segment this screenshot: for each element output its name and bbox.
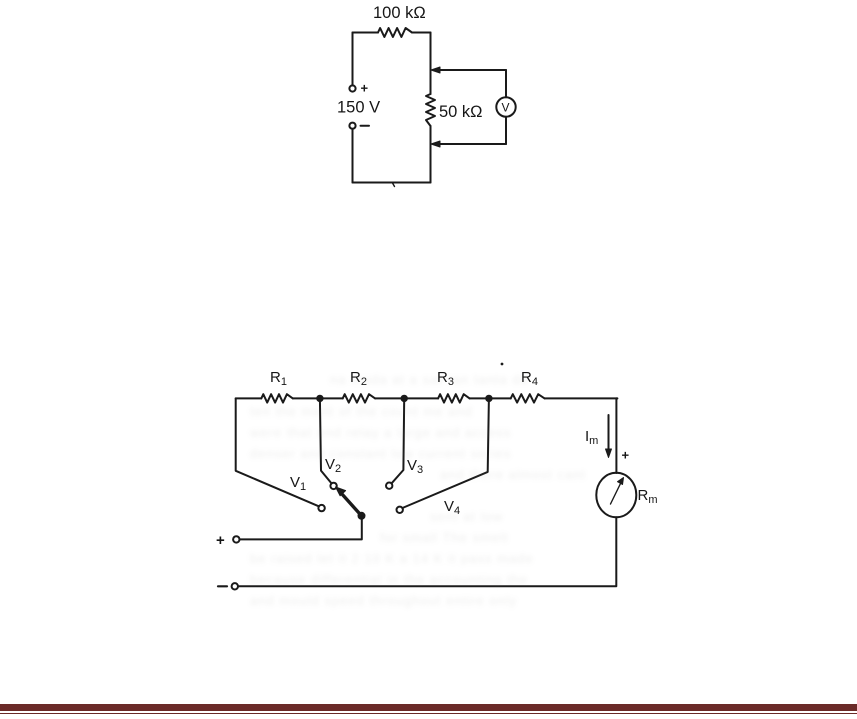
stray dot speck xyxy=(501,363,504,366)
wire meter to minus rail xyxy=(238,517,616,586)
junction node R2-R3 xyxy=(402,396,407,401)
terminal + xyxy=(233,536,239,542)
wire right vertical lower xyxy=(430,126,432,183)
source terminal + xyxy=(349,85,355,91)
wire V1 branch xyxy=(236,398,319,506)
terminal - xyxy=(232,583,238,589)
footer maroon bar thick xyxy=(0,704,857,711)
resistor 100 kOhm xyxy=(378,28,412,37)
wire top circuit: top side xyxy=(353,32,431,34)
contact V1 xyxy=(318,505,324,511)
svg-text:+: + xyxy=(216,532,225,549)
faint bleed-through text background xyxy=(330,372,529,387)
wire left vertical upper xyxy=(352,33,354,86)
svg-text:150 V: 150 V xyxy=(337,99,380,117)
arrowhead tap bottom xyxy=(431,141,440,147)
wire pivot to plus rail xyxy=(240,516,362,540)
contact V2 xyxy=(330,483,336,489)
svg-text:100 kΩ: 100 kΩ xyxy=(373,4,426,22)
wire R4 to meter xyxy=(615,398,618,473)
voltmeter V xyxy=(496,97,515,116)
meter Rm circle xyxy=(596,473,636,518)
resistor R3 xyxy=(438,394,470,402)
junction node R1-R2 xyxy=(317,396,322,401)
wire V2 branch xyxy=(320,398,332,483)
wire right vertical upper xyxy=(430,33,432,95)
wire V3 branch xyxy=(392,398,405,483)
resistor R2 xyxy=(343,394,375,402)
svg-text:+: + xyxy=(622,448,630,463)
label minus xyxy=(361,125,370,127)
wire left vertical lower xyxy=(352,129,354,183)
meter needle xyxy=(611,483,622,505)
arrowhead needle xyxy=(618,478,624,485)
svg-text:V: V xyxy=(502,101,510,115)
contact V4 xyxy=(397,507,403,513)
switch pivot node xyxy=(359,513,365,519)
footer maroon bar thin xyxy=(0,713,857,715)
arrowhead Im xyxy=(606,449,612,458)
resistor 50 kOhm xyxy=(426,94,435,126)
switch arm xyxy=(342,494,362,516)
svg-text:50 kΩ: 50 kΩ xyxy=(439,103,483,121)
svg-text:Rm: Rm xyxy=(638,487,658,506)
label minus input xyxy=(218,585,227,587)
wire voltmeter tap top xyxy=(438,69,506,71)
wire voltmeter tap bottom xyxy=(438,143,506,145)
wire bottom side top circuit xyxy=(353,182,431,184)
contact V3 xyxy=(386,483,392,489)
junction node R3-R4 xyxy=(486,396,491,401)
svg-text:+: + xyxy=(361,81,369,96)
svg-text:V1: V1 xyxy=(290,474,306,493)
wire bottom circuit top side xyxy=(236,397,618,399)
arrowhead switch arm xyxy=(336,487,346,496)
wire V4 branch xyxy=(402,398,489,508)
wire voltmeter branch upper xyxy=(505,70,507,97)
stray tick under bottom wire xyxy=(393,183,395,187)
source terminal - xyxy=(349,123,355,129)
resistor R4 xyxy=(511,394,545,402)
current arrow Im xyxy=(608,415,610,451)
resistor R1 xyxy=(261,394,293,402)
svg-text:Im: Im xyxy=(585,428,598,447)
svg-text:R1: R1 xyxy=(270,369,287,388)
arrowhead tap top xyxy=(431,67,440,73)
wire voltmeter branch lower xyxy=(505,117,507,144)
